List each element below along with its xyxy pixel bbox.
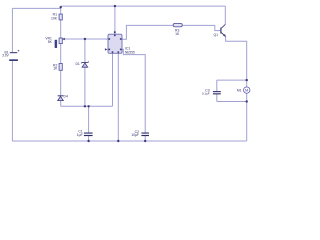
resistor R2 [59,64,62,71]
wire bottom rail [12,140,246,142]
wire lower node horizontal [61,105,113,107]
svg-text:1K: 1K [175,32,180,36]
resistor R3 [173,23,182,26]
label C3 [202,89,210,96]
svg-text:NE555: NE555 [125,51,135,55]
wire C1 to bottom rail [88,136,90,141]
zener diode D1 [81,62,89,68]
wire wiper to IC [64,38,109,40]
wire battery branch upper [11,8,13,52]
node IC feed top rail [114,5,116,7]
wire zener branch [84,39,86,106]
node motor top [246,79,248,81]
capacitor C2 [141,133,149,137]
wire motor bottom stub [246,93,248,101]
node R1 top rail [60,6,62,8]
wire Q1 emitter down then right [226,36,247,80]
wire R2 to D4 [60,70,62,95]
wire IC discharge to C2 [122,49,145,132]
node C1 bottom rail [87,140,89,142]
wire IC ground pin to rail [117,53,119,141]
node C1 top [87,105,89,107]
label B1 value [2,51,9,58]
wire C3 loop left lower [216,94,218,101]
svg-text:10µF: 10µF [131,133,139,137]
wire IC top feed [114,6,116,34]
wire battery branch lower [11,61,13,141]
wire R1 to VR1 [60,20,62,38]
wire C3 loop left upper [216,80,218,91]
svg-text:5K: 5K [48,40,53,44]
motor M1 [244,87,250,93]
node IC ground rail [117,140,119,142]
svg-text:1µF: 1µF [77,133,83,137]
wire top rail [12,6,225,8]
capacitor C3 [213,91,221,94]
node zener bottom [84,105,86,107]
svg-text:M: M [245,88,248,93]
svg-text:10K: 10K [51,16,58,20]
wire Q1 collector to top rail [224,6,226,24]
label R1 [51,13,58,21]
node wiper junction [84,38,86,40]
capacitor C1 [84,133,93,137]
wire motor to bottom rail [246,102,248,142]
label R3 [175,29,180,36]
wire D4 to node wire [60,101,62,107]
label C1 [77,130,83,137]
wire up to IC pin [112,53,114,106]
wire IC output up and right [122,25,173,39]
label R2 [53,63,58,70]
svg-text:Q1: Q1 [214,33,219,37]
IC1 555 timer body [105,31,122,53]
svg-text:M1: M1 [237,89,242,93]
battery B1 [9,50,19,61]
svg-text:3.0V: 3.0V [2,54,9,58]
node motor bottom [246,100,248,102]
diode D4 [58,96,64,101]
wire R3 to Q1 base [182,25,221,30]
potentiometer VR1 [55,38,65,48]
label IC1 [125,47,135,55]
wire C1 branch upper [88,106,90,132]
transistor Q1 [221,24,226,36]
wire C3 loop bottom [217,101,247,103]
svg-text:1K: 1K [53,67,58,71]
wire VR1 to R2 [60,44,62,64]
wire R1 stub from rail [60,8,62,14]
label C2 [131,130,139,137]
svg-text:D1: D1 [75,62,79,66]
label VR1 [45,36,52,43]
wire motor top stub [246,80,248,87]
wire C3 loop top [217,79,247,81]
resistor R1 [59,14,62,20]
svg-text:0.1µF: 0.1µF [202,92,210,96]
svg-text:D4: D4 [64,94,68,98]
node C2 bottom rail [144,140,146,142]
wire C2 to bottom rail [144,136,146,141]
